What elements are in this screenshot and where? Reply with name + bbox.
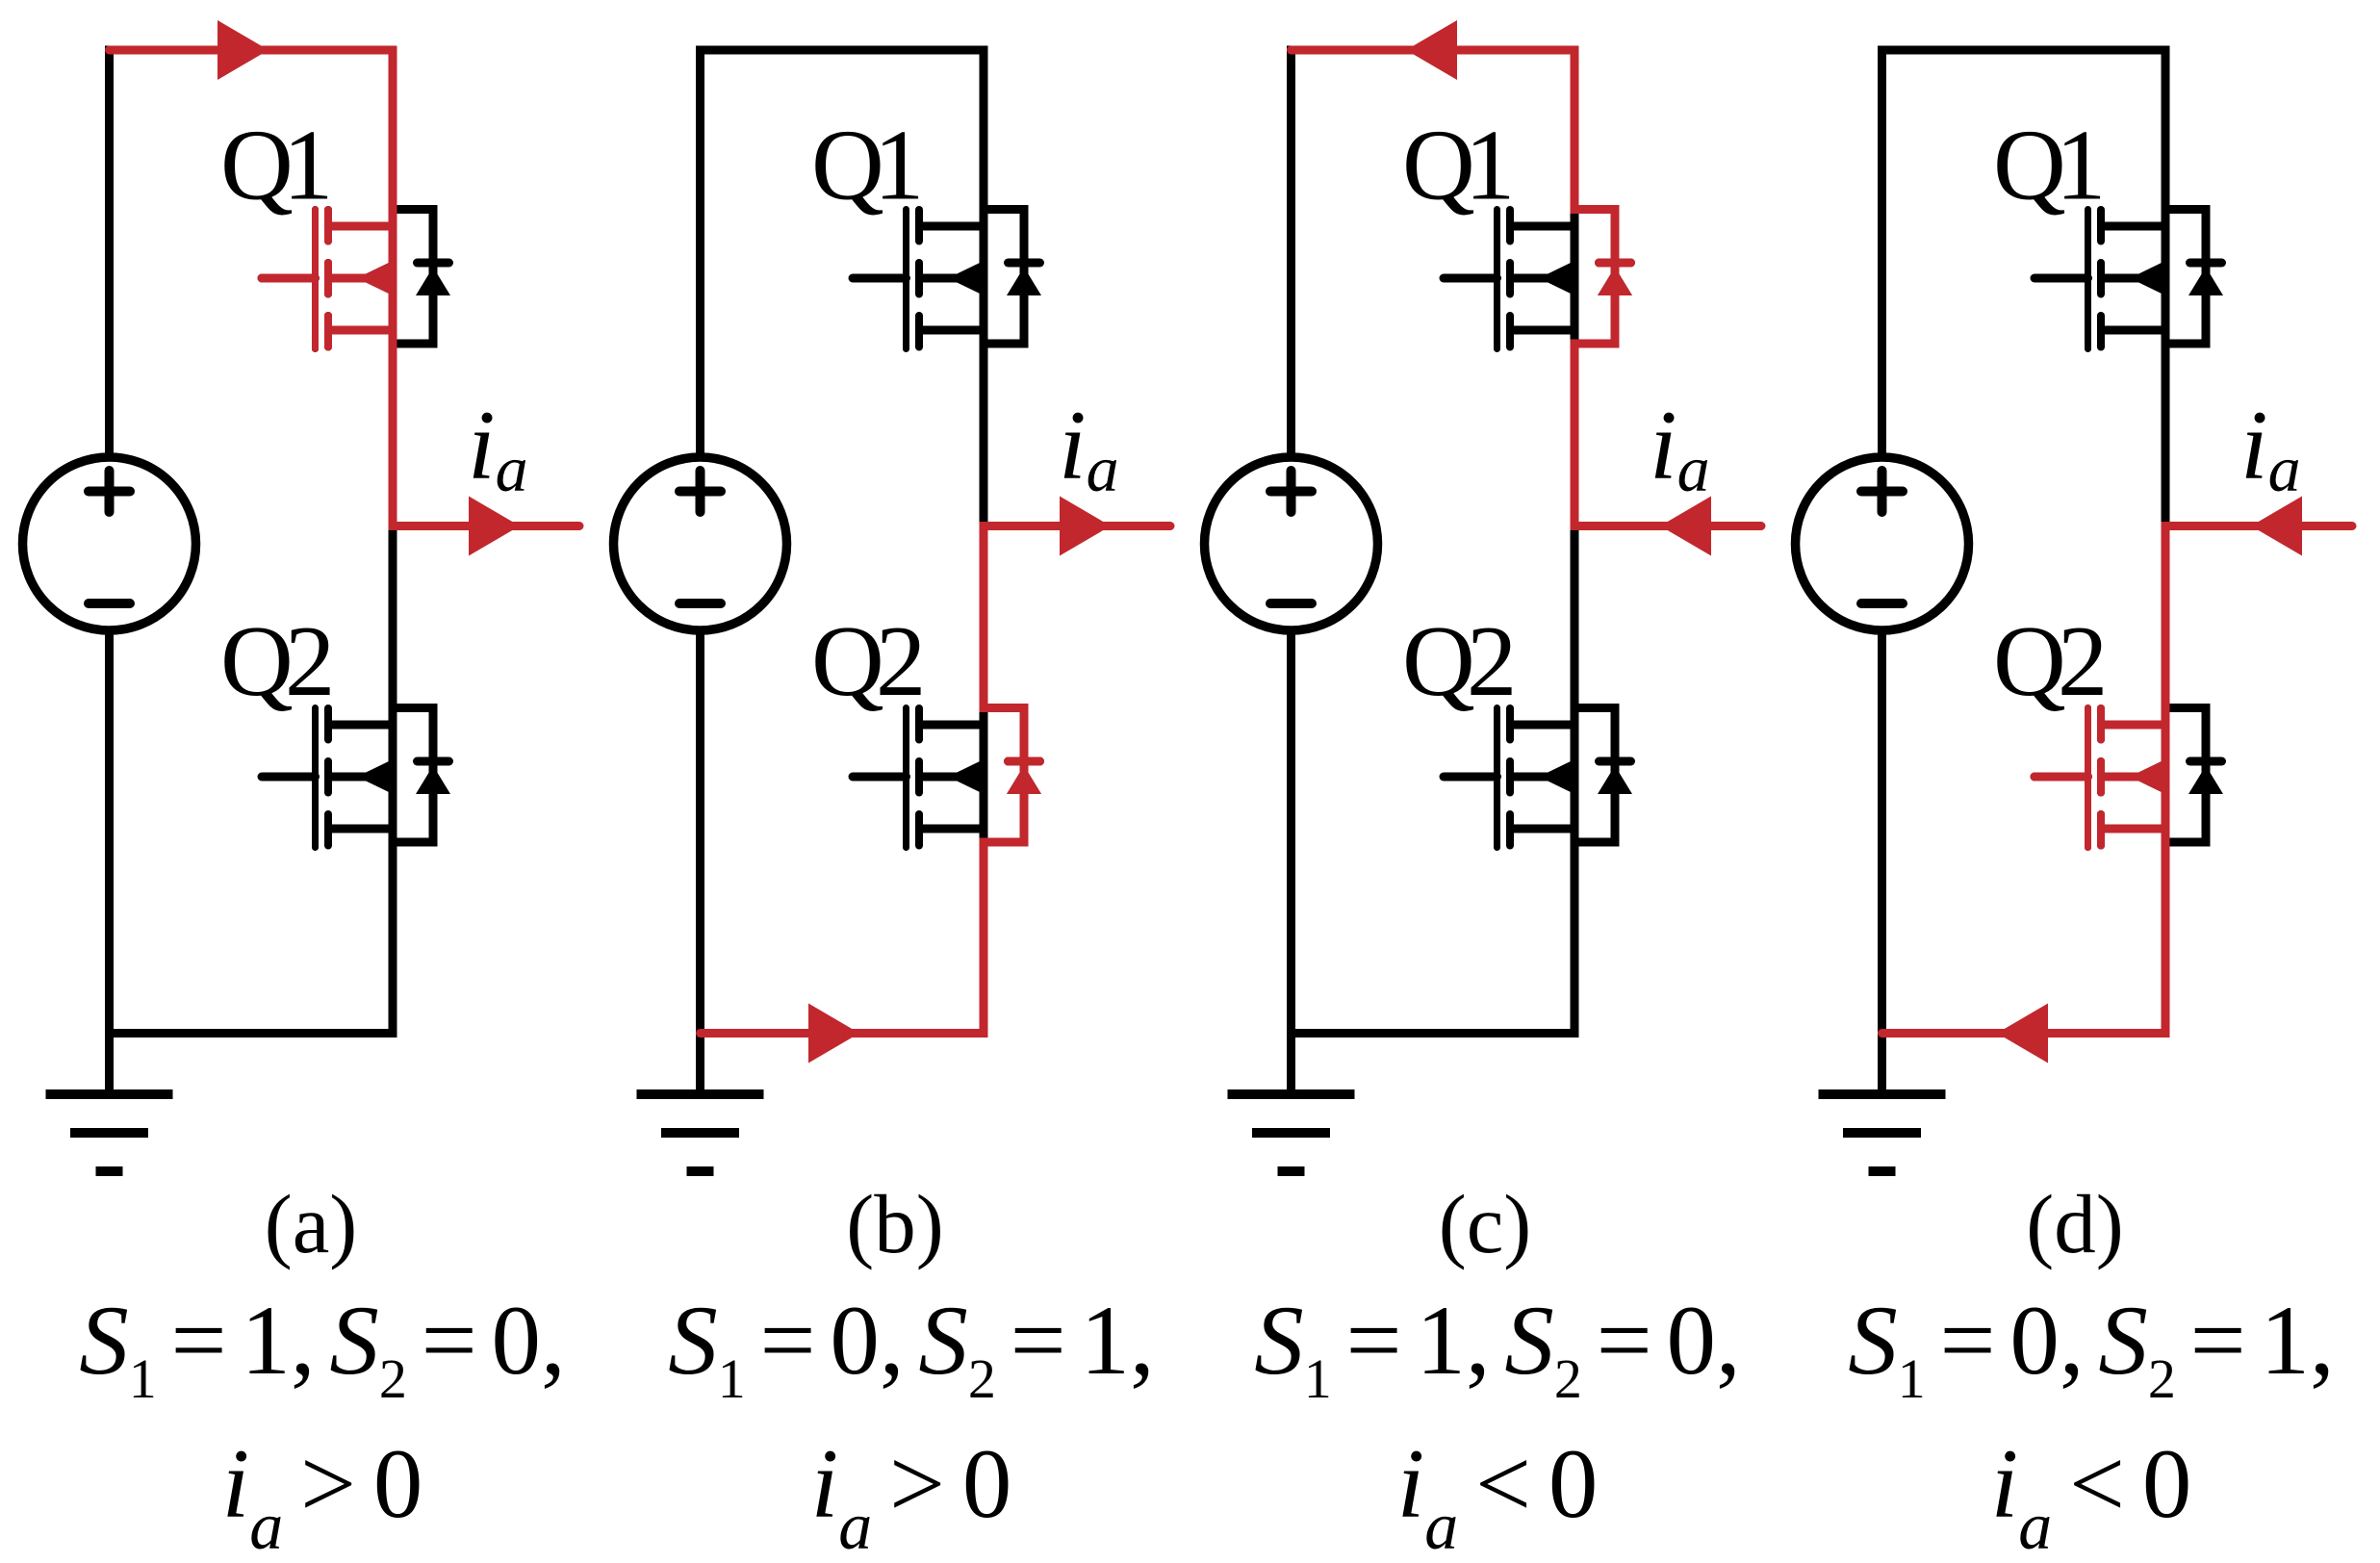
svg-text:Q1: Q1	[811, 109, 924, 221]
svg-text:Q2: Q2	[1993, 604, 2108, 717]
svg-text:(b): (b)	[846, 1177, 943, 1270]
svg-text:(c): (c)	[1439, 1177, 1532, 1270]
svg-text:(d): (d)	[2026, 1177, 2123, 1270]
svg-text:Q1: Q1	[1993, 109, 2106, 221]
svg-text:Q1: Q1	[220, 109, 333, 221]
svg-text:Q2: Q2	[1402, 604, 1517, 717]
svg-text:Q2: Q2	[811, 604, 926, 717]
svg-text:Q1: Q1	[1402, 109, 1515, 221]
svg-text:Q2: Q2	[220, 604, 335, 717]
svg-text:(a): (a)	[265, 1177, 358, 1270]
